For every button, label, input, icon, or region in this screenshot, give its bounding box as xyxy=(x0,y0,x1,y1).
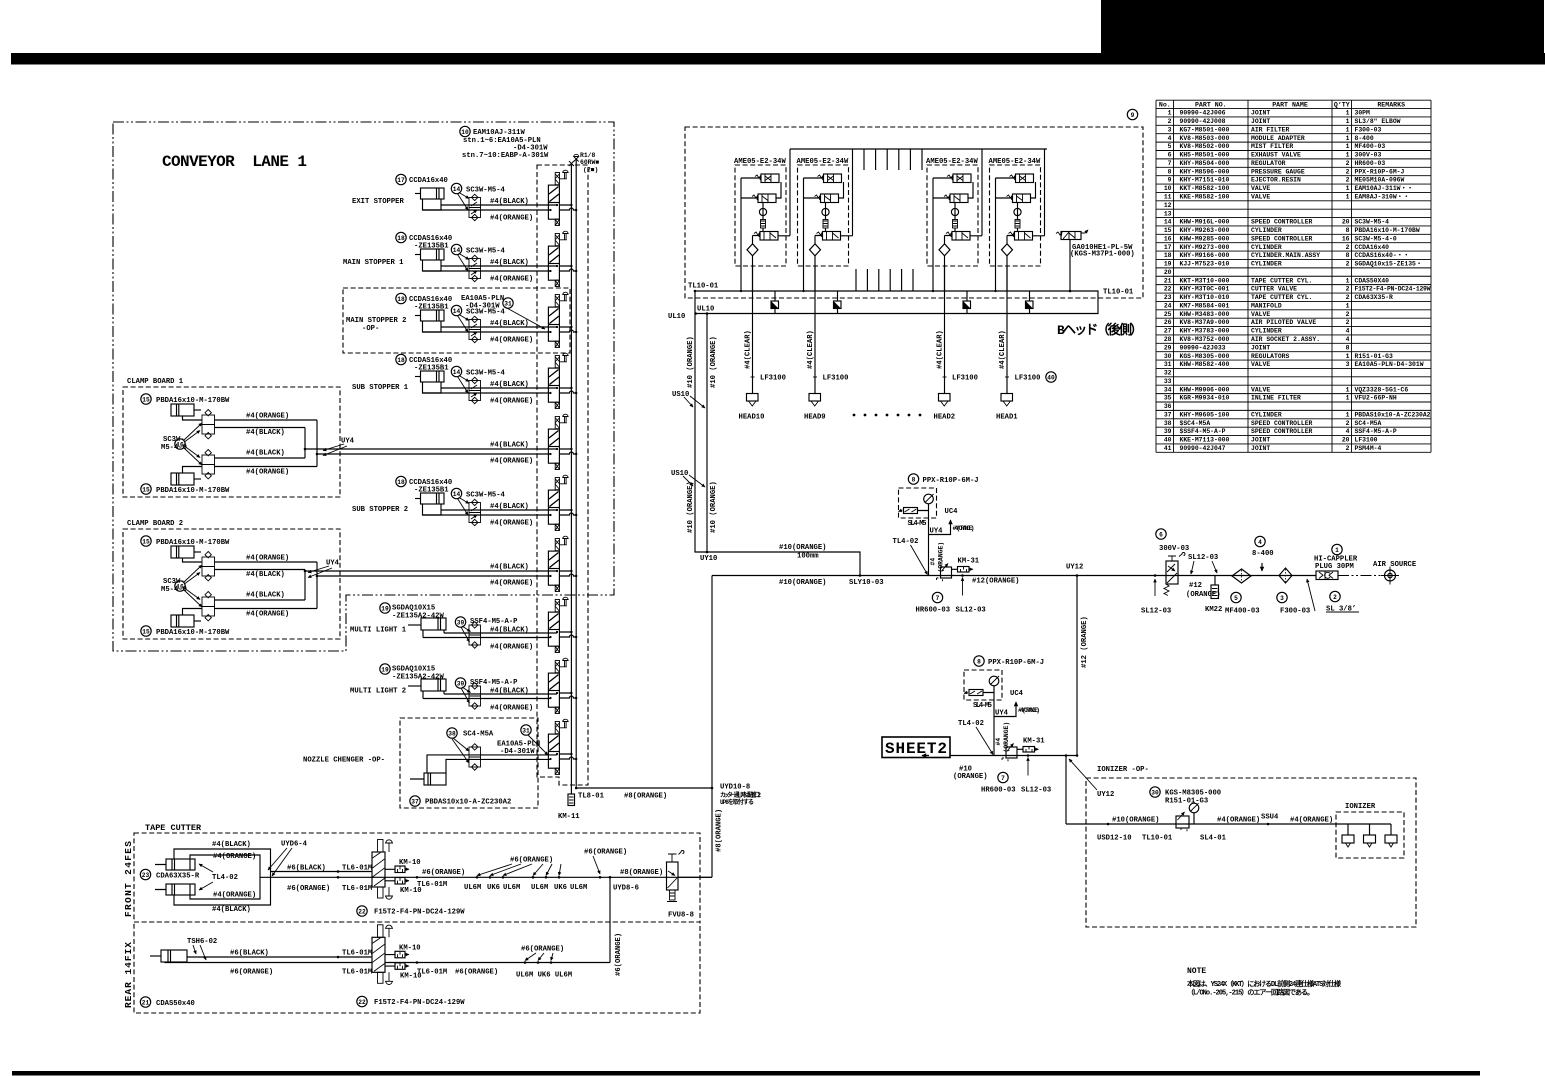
svg-text:#4(BLACK): #4(BLACK) xyxy=(490,564,529,572)
svg-text:KHY-M7151-010: KHY-M7151-010 xyxy=(1180,177,1230,184)
svg-text:（L/ONo.-205,-215）のエアー回路図である。: （L/ONo.-205,-215）のエアー回路図である。 xyxy=(1187,988,1314,998)
svg-text:32: 32 xyxy=(1164,370,1172,377)
svg-text:17: 17 xyxy=(397,177,405,184)
svg-text:12: 12 xyxy=(1164,202,1172,209)
sub stopper 1 cylinder assembly xyxy=(415,371,444,393)
svg-text:CYLINDER: CYLINDER xyxy=(1251,412,1282,419)
svg-text:REAR 14FIX: REAR 14FIX xyxy=(123,942,134,1008)
svg-text:SSF4-M5-A-P: SSF4-M5-A-P xyxy=(1355,428,1397,435)
svg-text:31: 31 xyxy=(1164,361,1172,368)
svg-text:KM-10: KM-10 xyxy=(399,859,421,867)
svg-text:TL4-02: TL4-02 xyxy=(212,874,238,882)
svg-text:AME05-E2-34W: AME05-E2-34W xyxy=(734,158,786,166)
title block redaction xyxy=(1101,0,1544,53)
svg-text:TL6-01M: TL6-01M xyxy=(342,865,372,873)
svg-text:#4(BLACK): #4(BLACK) xyxy=(490,198,529,206)
circled 9 xyxy=(1127,109,1137,119)
air filter F300-03 xyxy=(1279,568,1292,583)
svg-text:AIR SOCKET 2.ASSY.: AIR SOCKET 2.ASSY. xyxy=(1251,336,1320,343)
svg-text:KM-31: KM-31 xyxy=(1023,738,1045,746)
svg-text:本図は、YS24X（KKT）におけるDL前側24連仕様ATS: 本図は、YS24X（KKT）におけるDL前側24連仕様ATS対仕様 xyxy=(1186,979,1342,989)
svg-text:#4(ORANGE): #4(ORANGE) xyxy=(490,644,533,652)
svg-text:8: 8 xyxy=(912,476,916,483)
svg-text:REGULATORS: REGULATORS xyxy=(1251,353,1290,360)
svg-text:MF400-03: MF400-03 xyxy=(1355,143,1386,150)
svg-text:#4(BLACK): #4(BLACK) xyxy=(246,429,285,437)
svg-text:2: 2 xyxy=(1168,118,1172,125)
bus to KM-11 and TL8-01 xyxy=(571,788,712,794)
svg-text:16: 16 xyxy=(1164,235,1172,242)
svg-text:#8(ORANGE): #8(ORANGE) xyxy=(620,869,663,877)
speed controllers xyxy=(469,625,481,635)
svg-text:#4(ORANGE): #4(ORANGE) xyxy=(246,555,289,563)
muffler KM22 xyxy=(1214,576,1216,586)
svg-text:PPX-R10P-6M-J: PPX-R10P-6M-J xyxy=(923,477,979,485)
svg-text:VQZ3328-5G1-C6: VQZ3328-5G1-C6 xyxy=(1355,386,1409,393)
svg-text:-D4-301W: -D4-301W xyxy=(465,303,500,311)
svg-text:1: 1 xyxy=(1346,152,1350,159)
svg-text:CLAMP BOARD 2: CLAMP BOARD 2 xyxy=(127,520,183,528)
svg-text:20: 20 xyxy=(1342,219,1350,226)
svg-text:20: 20 xyxy=(1164,269,1172,276)
top black bar xyxy=(11,53,1545,65)
svg-text:19: 19 xyxy=(381,666,389,673)
svg-text:3: 3 xyxy=(1280,595,1284,602)
svg-text:1: 1 xyxy=(1335,547,1339,554)
svg-text:CYLINDER: CYLINDER xyxy=(1251,261,1282,268)
svg-text:CDA63X35-R: CDA63X35-R xyxy=(1355,294,1394,301)
svg-text:KV8-M8502-000: KV8-M8502-000 xyxy=(1180,143,1230,150)
svg-text:KHY-M8596-000: KHY-M8596-000 xyxy=(1180,168,1230,175)
vacuum head line HEAD10 xyxy=(752,266,754,394)
svg-text:CYLINDER: CYLINDER xyxy=(1251,227,1282,234)
svg-text:JOINT: JOINT xyxy=(1251,118,1270,125)
svg-text:(ORANGE): (ORANGE) xyxy=(953,773,988,781)
svg-text:4: 4 xyxy=(1346,328,1350,335)
svg-text:#4(ORANGE): #4(ORANGE) xyxy=(490,276,533,284)
svg-text:#4(ORANGE): #4(ORANGE) xyxy=(1290,817,1333,825)
svg-text:#6(ORANGE): #6(ORANGE) xyxy=(584,849,627,857)
svg-text:19: 19 xyxy=(381,605,389,612)
svg-text:SL4-M5: SL4-M5 xyxy=(973,702,992,710)
svg-text:#4(BLACK): #4(BLACK) xyxy=(246,450,285,458)
manifold valve station 9 xyxy=(548,658,577,713)
svg-text:2: 2 xyxy=(1346,261,1350,268)
svg-text:3: 3 xyxy=(1346,361,1350,368)
svg-text:NOZZLE CHENGER -OP-: NOZZLE CHENGER -OP- xyxy=(303,757,385,765)
svg-text:4: 4 xyxy=(1346,336,1350,343)
svg-text:2: 2 xyxy=(1346,244,1350,251)
svg-text:PBDAS10x10-A-ZC230A2: PBDAS10x10-A-ZC230A2 xyxy=(1355,412,1431,419)
svg-text:#10(ORANGE): #10(ORANGE) xyxy=(779,544,826,552)
svg-text:CYLINDER: CYLINDER xyxy=(1251,244,1282,251)
svg-text:TSH6-02: TSH6-02 xyxy=(187,938,217,946)
svg-text:SC4-M5A: SC4-M5A xyxy=(463,731,494,739)
svg-text:VALVE: VALVE xyxy=(1251,194,1270,201)
svg-text:#4(BLACK): #4(BLACK) xyxy=(490,503,529,511)
svg-text:18: 18 xyxy=(397,357,405,364)
svg-text:F15T2-F4-PN-DC24-129W: F15T2-F4-PN-DC24-129W xyxy=(374,909,465,917)
svg-text:15: 15 xyxy=(142,486,150,493)
wires to valve 6 xyxy=(423,510,558,515)
SHEET2 xyxy=(882,737,950,758)
svg-text:#4(ORANGE): #4(ORANGE) xyxy=(246,469,289,477)
svg-text:90990-42J006: 90990-42J006 xyxy=(1180,110,1226,117)
cylinder xyxy=(408,624,421,626)
svg-text:21: 21 xyxy=(142,999,150,1006)
manifold valve station 2 xyxy=(548,231,577,286)
svg-text:INLINE FILTER: INLINE FILTER xyxy=(1251,395,1301,402)
svg-text:SPEED CONTROLLER: SPEED CONTROLLER xyxy=(1251,428,1313,435)
svg-text:LF3100: LF3100 xyxy=(1015,375,1041,383)
svg-text:KM7-M8584-001: KM7-M8584-001 xyxy=(1180,303,1230,310)
svg-text:TL10-01: TL10-01 xyxy=(1142,835,1173,843)
svg-text:18: 18 xyxy=(1164,252,1172,259)
svg-text:2: 2 xyxy=(1346,168,1350,175)
svg-text:LF3100: LF3100 xyxy=(823,375,849,383)
svg-text:F300-03: F300-03 xyxy=(1355,126,1382,133)
svg-text:US10: US10 xyxy=(671,470,688,478)
svg-text:SL12-03: SL12-03 xyxy=(1021,787,1051,795)
svg-text:KGR-M9934-010: KGR-M9934-010 xyxy=(1180,395,1230,402)
svg-text:30PM: 30PM xyxy=(1355,110,1371,117)
svg-text:SC3W-M5-4: SC3W-M5-4 xyxy=(466,248,506,256)
pressure gauge assembly PPX-R10P-6M-J xyxy=(908,474,918,484)
svg-text:#4: #4 xyxy=(995,738,1002,746)
svg-text:-ZE135B1: -ZE135B1 xyxy=(414,365,449,373)
nozzle speed controllers xyxy=(469,747,481,757)
manifold valve station 8 xyxy=(548,597,577,652)
svg-text:PPX-R10P-6M-J: PPX-R10P-6M-J xyxy=(988,659,1044,667)
svg-text:JOINT: JOINT xyxy=(1251,445,1270,452)
svg-text:LF3100: LF3100 xyxy=(760,375,786,383)
vacuum head line HEAD9 xyxy=(814,266,816,394)
svg-text:#12: #12 xyxy=(1189,582,1202,590)
svg-text:8-400: 8-400 xyxy=(1252,550,1274,558)
svg-text:VALVE: VALVE xyxy=(1251,361,1270,368)
svg-text:15: 15 xyxy=(142,538,150,545)
svg-text:SL12-03: SL12-03 xyxy=(956,607,986,615)
svg-text:SPEED CONTROLLER: SPEED CONTROLLER xyxy=(1251,219,1313,226)
svg-text:PBDA16x10-M-170BW: PBDA16x10-M-170BW xyxy=(1355,227,1420,234)
svg-text:R151-01-G3: R151-01-G3 xyxy=(1355,353,1394,360)
svg-text:SL12-03: SL12-03 xyxy=(1188,554,1218,562)
svg-text:2: 2 xyxy=(1333,594,1337,601)
svg-text:8: 8 xyxy=(1346,344,1350,351)
svg-text:37: 37 xyxy=(411,798,419,805)
omitted heads dots xyxy=(853,414,922,417)
svg-text:HEAD1: HEAD1 xyxy=(996,414,1018,422)
svg-text:VALVE: VALVE xyxy=(1251,311,1270,318)
svg-text:CUTTER VALVE: CUTTER VALVE xyxy=(1251,286,1297,293)
svg-text:6: 6 xyxy=(1159,531,1163,538)
svg-text:40: 40 xyxy=(1164,437,1172,444)
svg-text:KHW-M916L-000: KHW-M916L-000 xyxy=(1180,219,1230,226)
svg-text:13: 13 xyxy=(1164,210,1172,217)
svg-text:#10 (ORANGE): #10 (ORANGE) xyxy=(710,336,718,388)
svg-text:SC3W-M5-4: SC3W-M5-4 xyxy=(1355,219,1390,226)
svg-text:KGS-M8305-000: KGS-M8305-000 xyxy=(1165,790,1221,798)
svg-text:SUB STOPPER 2: SUB STOPPER 2 xyxy=(352,506,408,514)
svg-text:HEAD10: HEAD10 xyxy=(739,414,765,422)
svg-text:TAPE CUTTER CYL.: TAPE CUTTER CYL. xyxy=(1251,277,1312,284)
svg-text:KHY-M8504-000: KHY-M8504-000 xyxy=(1180,160,1230,167)
clamp cylinder top xyxy=(171,546,201,558)
svg-text:KKE-M8582-100: KKE-M8582-100 xyxy=(1180,194,1230,201)
svg-text:#4(ORANGE): #4(ORANGE) xyxy=(246,611,289,619)
svg-text:30: 30 xyxy=(1151,789,1159,796)
svg-text:KJJ-M7523-010: KJJ-M7523-010 xyxy=(1180,261,1230,268)
svg-text:No.: No. xyxy=(1159,101,1171,108)
svg-text:UY12: UY12 xyxy=(1097,791,1114,799)
svg-text:300V-03: 300V-03 xyxy=(1355,152,1382,159)
svg-text:28: 28 xyxy=(1164,336,1172,343)
svg-text:35: 35 xyxy=(1164,395,1172,402)
svg-text:SC3W-: SC3W- xyxy=(163,436,185,444)
svg-text:EXHAUST VALVE: EXHAUST VALVE xyxy=(1251,152,1301,159)
svg-text:SHEET2: SHEET2 xyxy=(885,740,947,758)
#8 orange drop from main line xyxy=(678,576,712,878)
svg-text:KV8-M8503-000: KV8-M8503-000 xyxy=(1180,135,1230,142)
svg-text:KM22: KM22 xyxy=(1205,606,1222,614)
svg-text:MULTI LIGHT 2: MULTI LIGHT 2 xyxy=(350,688,406,696)
svg-text:#6(ORANGE): #6(ORANGE) xyxy=(422,869,465,877)
svg-text:#4(BLACK): #4(BLACK) xyxy=(490,381,529,389)
MULTI LIGHT 2 assembly xyxy=(380,664,390,674)
svg-text:R1/8: R1/8 xyxy=(580,152,596,159)
svg-text:VFU2-66P-NH: VFU2-66P-NH xyxy=(1355,395,1397,402)
svg-text:Q’TY: Q’TY xyxy=(1334,101,1350,108)
svg-text:UYD6-4: UYD6-4 xyxy=(281,841,308,849)
speed controllers xyxy=(202,557,215,567)
svg-text:EJECTOR.RESIN: EJECTOR.RESIN xyxy=(1251,177,1301,184)
svg-text:#4(ORANGE): #4(ORANGE) xyxy=(490,337,533,345)
svg-text:TL8-01: TL8-01 xyxy=(578,793,605,801)
svg-text:ME05M10A-096W: ME05M10A-096W xyxy=(1355,177,1405,184)
svg-text:TAPE CUTTER: TAPE CUTTER xyxy=(145,823,202,833)
svg-text:EAM10AJ-311W・・: EAM10AJ-311W・・ xyxy=(1355,185,1414,192)
muffler KM-31 xyxy=(1023,747,1035,753)
svg-text:#4(ORANGE): #4(ORANGE) xyxy=(213,892,256,900)
svg-text:PBDAS10x10-A-ZC230A2: PBDAS10x10-A-ZC230A2 xyxy=(425,799,511,807)
wires to valve 3 xyxy=(423,327,558,332)
svg-text:TAPE CUTTER CYL.: TAPE CUTTER CYL. xyxy=(1251,294,1312,301)
exhaust valve 300V-03 xyxy=(1156,529,1166,539)
svg-text:KHY-M9166-000: KHY-M9166-000 xyxy=(1180,252,1230,259)
svg-text:#6(ORANGE): #6(ORANGE) xyxy=(287,885,330,893)
svg-text:SC3W-M5-4: SC3W-M5-4 xyxy=(466,492,506,500)
svg-text:-ZE135B1: -ZE135B1 xyxy=(414,304,449,312)
svg-text:CCDAS16x40-・・: CCDAS16x40-・・ xyxy=(1355,252,1410,259)
svg-text:CCDA16x40: CCDA16x40 xyxy=(409,177,448,185)
svg-text:KHY-M9273-000: KHY-M9273-000 xyxy=(1180,244,1230,251)
svg-text:UK6: UK6 xyxy=(487,884,500,892)
B-head outer dashed box xyxy=(685,127,1143,298)
regulator HR600-03 xyxy=(1006,747,1017,758)
svg-text:UL6M UK6 UL6M: UL6M UK6 UL6M xyxy=(516,972,572,980)
svg-text:33: 33 xyxy=(1164,378,1172,385)
exit stopper cylinder assembly xyxy=(415,188,444,210)
speed controllers xyxy=(202,415,215,425)
manifold valve station 7 xyxy=(548,536,577,591)
front wire loops xyxy=(174,849,271,905)
svg-text:KHW-M9285-000: KHW-M9285-000 xyxy=(1180,235,1230,242)
svg-text:#4(BLACK): #4(BLACK) xyxy=(490,259,529,267)
KM-11 muffler xyxy=(568,794,575,806)
svg-text:16: 16 xyxy=(1342,235,1350,242)
svg-text:HR600-03: HR600-03 xyxy=(981,787,1016,795)
svg-text:SSU4: SSU4 xyxy=(1261,814,1279,822)
pressure gauge assembly PPX-R10P-6M-J xyxy=(974,656,984,666)
svg-text:8-400: 8-400 xyxy=(1355,135,1374,142)
svg-text:KKT-M3T10-000: KKT-M3T10-000 xyxy=(1180,277,1230,284)
TL10-01 manifold line xyxy=(695,291,1098,314)
module adapter 8-400 arrow xyxy=(1261,563,1263,571)
svg-text:EA10A5-PLN-D4-301W: EA10A5-PLN-D4-301W xyxy=(1355,361,1424,368)
svg-text:36: 36 xyxy=(1164,403,1172,410)
svg-text:MODULE ADAPTER: MODULE ADAPTER xyxy=(1251,135,1305,142)
ionizer nozzle xyxy=(1390,824,1392,835)
svg-text:UYD8-6: UYD8-6 xyxy=(613,885,639,893)
front cutter valve xyxy=(372,840,393,900)
svg-text:31: 31 xyxy=(504,300,512,307)
svg-text:1: 1 xyxy=(1346,110,1350,117)
svg-text:17: 17 xyxy=(1164,244,1172,251)
svg-text:#4(BLACK): #4(BLACK) xyxy=(490,442,529,450)
svg-text:2: 2 xyxy=(1346,311,1350,318)
svg-text:TL4-02: TL4-02 xyxy=(958,720,984,728)
svg-text:PART NAME: PART NAME xyxy=(1272,101,1308,108)
svg-text:#4(BLACK): #4(BLACK) xyxy=(212,841,251,849)
svg-text:4: 4 xyxy=(1346,428,1350,435)
manifold valve station 4 xyxy=(548,353,577,408)
manifold valve station 5 xyxy=(548,414,577,469)
svg-text:26: 26 xyxy=(1164,319,1172,326)
manifold valve station 3 xyxy=(548,292,577,347)
svg-text:15: 15 xyxy=(1164,227,1172,234)
svg-text:#4(BLACK): #4(BLACK) xyxy=(490,627,529,635)
speed controllers xyxy=(202,597,215,607)
svg-text:UL10: UL10 xyxy=(697,306,714,314)
vacuum head line HEAD1 xyxy=(1006,266,1008,394)
svg-text:#4(ORANGE): #4(ORANGE) xyxy=(490,580,533,588)
mist filter MF400-03 xyxy=(1232,569,1251,583)
svg-text:UL6M: UL6M xyxy=(464,884,481,892)
svg-text:$SSF4-M5-A-P: $SSF4-M5-A-P xyxy=(1180,428,1226,435)
svg-text:300V-03: 300V-03 xyxy=(1159,545,1189,553)
svg-text:SC3W-M5-4: SC3W-M5-4 xyxy=(466,370,506,378)
GA010 pilot valve xyxy=(1061,232,1081,240)
svg-text:-ZE135B1: -ZE135B1 xyxy=(414,487,449,495)
svg-text:#4(ORANGE): #4(ORANGE) xyxy=(246,413,289,421)
ejector unit AME05-E2-34W #2 xyxy=(798,149,853,292)
svg-text:#10 (ORANGE): #10 (ORANGE) xyxy=(710,481,718,533)
svg-text:M5-4-0: M5-4-0 xyxy=(161,586,187,594)
svg-text:KHW-M8582-400: KHW-M8582-400 xyxy=(1180,361,1230,368)
svg-text:1: 1 xyxy=(1346,185,1350,192)
svg-text:-ZE135A2-42W: -ZE135A2-42W xyxy=(392,613,444,621)
svg-text:KHW-M3483-000: KHW-M3483-000 xyxy=(1180,311,1230,318)
svg-text:USD12-10: USD12-10 xyxy=(1097,835,1132,843)
svg-text:8: 8 xyxy=(1346,227,1350,234)
svg-text:CDAS50X40: CDAS50X40 xyxy=(1355,277,1390,284)
ejector unit AME05-E2-34W #1 xyxy=(735,149,790,292)
svg-text:TL10-01: TL10-01 xyxy=(688,283,719,291)
svg-text:#4(CLEAR): #4(CLEAR) xyxy=(936,330,944,369)
svg-text:FVU8-8: FVU8-8 xyxy=(668,912,694,920)
ionizer nozzle xyxy=(1347,824,1349,835)
svg-text:-ZE135B1: -ZE135B1 xyxy=(414,243,449,251)
svg-text:UL10: UL10 xyxy=(668,313,685,321)
svg-text:F15T2-F4-PN-DC24-129W: F15T2-F4-PN-DC24-129W xyxy=(374,999,465,1007)
svg-text:US10: US10 xyxy=(672,391,689,399)
svg-text:#4: #4 xyxy=(930,558,937,566)
svg-text:14: 14 xyxy=(453,491,461,498)
svg-text:34: 34 xyxy=(1164,386,1172,393)
svg-text:UC4: UC4 xyxy=(945,508,959,516)
svg-text:2: 2 xyxy=(1346,177,1350,184)
air source xyxy=(1338,575,1384,577)
svg-text:#4(CLEAR): #4(CLEAR) xyxy=(744,330,752,369)
speed controllers xyxy=(469,686,481,696)
svg-text:2: 2 xyxy=(1346,294,1350,301)
svg-text:#4(CLEAR): #4(CLEAR) xyxy=(807,330,815,369)
svg-text:IONIZER -OP-: IONIZER -OP- xyxy=(1097,766,1149,774)
svg-text:#4(ORANGE): #4(ORANGE) xyxy=(490,520,533,528)
exhaust valve FVU8-8 xyxy=(667,862,679,890)
svg-text:27: 27 xyxy=(1164,328,1172,335)
svg-text:SL3/8" ELBOW: SL3/8" ELBOW xyxy=(1355,118,1401,125)
svg-text:KH5-M8501-000: KH5-M8501-000 xyxy=(1180,152,1230,159)
svg-text:PSM4M-4: PSM4M-4 xyxy=(1355,445,1382,452)
svg-text:SC3W-: SC3W- xyxy=(163,578,185,586)
svg-text:VALVE: VALVE xyxy=(1251,386,1270,393)
svg-text:CYLINDER.MAIN.ASSY: CYLINDER.MAIN.ASSY xyxy=(1251,252,1320,259)
svg-text:#6(ORANGE): #6(ORANGE) xyxy=(230,969,273,977)
svg-text:SL4-M5: SL4-M5 xyxy=(908,520,927,528)
sub stopper 2 cylinder assembly xyxy=(415,493,444,515)
svg-text:JOINT: JOINT xyxy=(1251,437,1270,444)
ejector unit AME05-E2-34W #4 xyxy=(990,149,1045,292)
wires xyxy=(423,694,557,699)
svg-text:TL6-01M: TL6-01M xyxy=(417,969,447,977)
svg-text:JOINT: JOINT xyxy=(1251,344,1270,351)
svg-text:#4(ORANGE): #4(ORANGE) xyxy=(490,215,533,223)
svg-text:#4(ORANGE): #4(ORANGE) xyxy=(953,525,975,532)
svg-text:KM-11: KM-11 xyxy=(558,813,580,821)
svg-text:KM-31: KM-31 xyxy=(958,558,980,566)
svg-text:3: 3 xyxy=(1168,126,1172,133)
svg-text:SLY10-03: SLY10-03 xyxy=(849,579,884,587)
svg-text:1: 1 xyxy=(1346,194,1350,201)
svg-text:KHY-M3T0C-001: KHY-M3T0C-001 xyxy=(1180,286,1230,293)
svg-text:CDAS50x40: CDAS50x40 xyxy=(156,1000,195,1008)
svg-text:SPEED CONTROLLER: SPEED CONTROLLER xyxy=(1251,420,1313,427)
svg-text:KM-10: KM-10 xyxy=(399,945,421,953)
svg-text:SL4-01: SL4-01 xyxy=(1200,835,1227,843)
svg-text:39: 39 xyxy=(457,619,465,626)
svg-text:22: 22 xyxy=(358,999,366,1006)
svg-text:2: 2 xyxy=(1346,286,1350,293)
svg-text:1: 1 xyxy=(1346,277,1350,284)
svg-text:$SC4-M5A: $SC4-M5A xyxy=(1180,420,1211,427)
svg-text:10: 10 xyxy=(461,129,469,136)
svg-text:7: 7 xyxy=(1168,160,1172,167)
main stopper 2 OP dashed box xyxy=(343,288,570,353)
svg-text:KHY-M9605-100: KHY-M9605-100 xyxy=(1180,412,1230,419)
svg-text:MANIFOLD: MANIFOLD xyxy=(1251,303,1282,310)
svg-text:14: 14 xyxy=(453,247,461,254)
